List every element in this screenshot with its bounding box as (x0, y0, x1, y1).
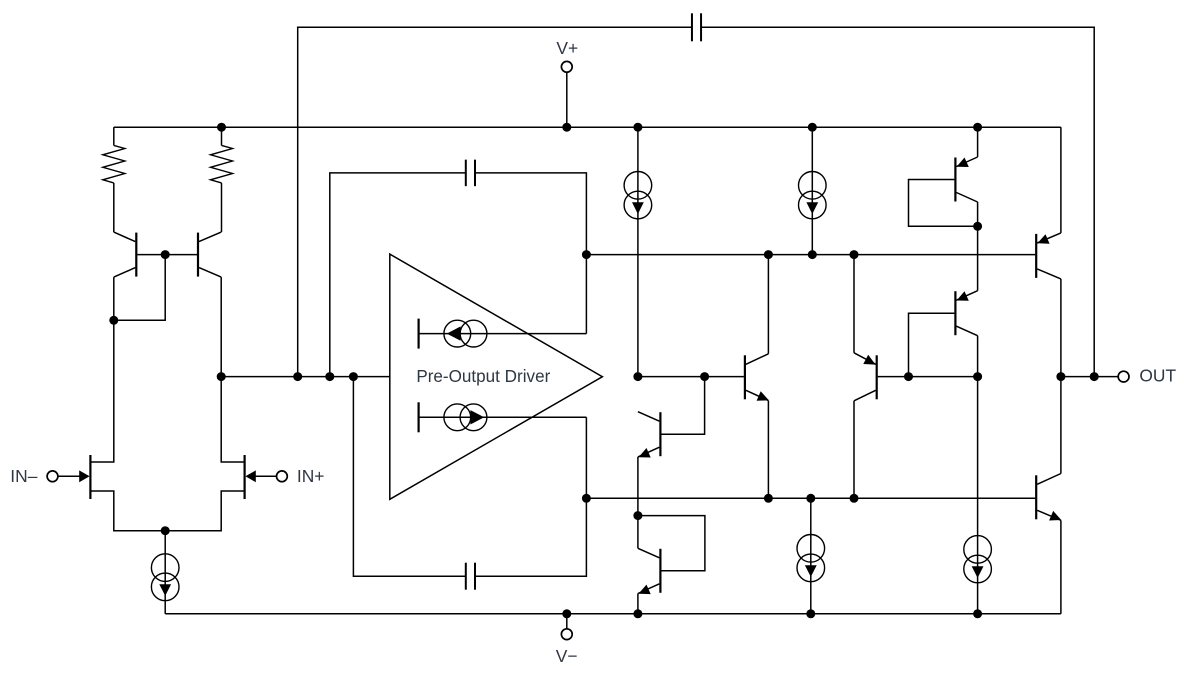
transistor Q4 collector (638, 548, 660, 558)
wire: V- terminal to rail (566, 614, 568, 629)
transistor Q3 emitter (638, 447, 660, 457)
wire: R1 bottom lead to Q1 collector (113, 183, 115, 232)
wire: V- rail (165, 613, 1061, 615)
transistor Q8 base bar (954, 291, 956, 335)
node: tail junction (161, 526, 170, 535)
transistor Q6 collector (854, 390, 876, 401)
node: V+ rail / I1 junction (633, 123, 642, 132)
wire: Q5 emitter to lower bus (767, 401, 769, 499)
current source I1 (624, 172, 652, 200)
terminal V+ pin circle (561, 61, 572, 72)
node: I4 / V- rail junction (973, 609, 982, 618)
wire: upper feedback loop (C2 to IA line) (475, 173, 586, 334)
wire: base node down and left to Q1 emitter line (114, 255, 165, 321)
wire: Q7 collector to Q8 emitter (977, 226, 979, 290)
current source I3 (797, 535, 825, 563)
input JFET J2 channel bar (244, 455, 246, 499)
transistor Q5 emitter (746, 390, 769, 400)
Q9 emitter arrow (points into bar) (1037, 234, 1049, 244)
transistor Q3 base bar (659, 412, 661, 456)
wire: V+ terminal to rail (566, 72, 568, 127)
svg-text:IN+: IN+ (297, 466, 325, 486)
op-amp U1 Pre-Output Driver triangle (390, 254, 603, 499)
wire: Q8 base loop (909, 313, 955, 376)
J1 gate arrow (79, 470, 89, 482)
node: base tie / left branch junction (109, 316, 118, 325)
wire: J1 source (91, 491, 165, 531)
wire: Q3 emitter to Q4 node (637, 457, 639, 516)
transistor Q4 emitter (638, 584, 660, 594)
current source I-tail (151, 554, 179, 582)
current source I2 (799, 172, 827, 200)
Q4 emitter arrow (639, 585, 651, 595)
wire: R2 bottom lead to Q2 collector (221, 183, 223, 232)
wire: Q8 collector node to I4 (977, 377, 979, 614)
wire: left branch vertical (Q1 emitter to J1 drain) (91, 277, 113, 462)
Q7 emitter arrow (points into bar) (957, 158, 969, 168)
Q10 emitter arrow (1049, 511, 1061, 521)
node: lower bus / Q5 emitter junction (764, 494, 773, 503)
svg-text:V+: V+ (556, 38, 578, 58)
wire: Q7 base loop (909, 180, 978, 227)
wire: IN- terminal to J1 gate (58, 475, 80, 477)
wire: IB line to lower cap loop (419, 416, 587, 418)
node: I3 / V- rail junction (806, 609, 815, 618)
capacitor C2 (upper feedback) (465, 160, 467, 187)
transistor Q1 collector (114, 232, 136, 242)
node: node line / top-comp drop junction (293, 372, 302, 381)
Q3 emitter arrow (639, 448, 651, 458)
node: V+ rail / Q7 emitter junction (973, 123, 982, 132)
current source IB terminal bar (418, 402, 420, 432)
wire: V+ rail corner down to Q9 emitter (1060, 127, 1062, 233)
transistor Q1 base bar (135, 233, 137, 277)
wire: Q7 collector down to node (977, 202, 979, 226)
current source IA (arrow left) (444, 320, 471, 347)
node: lower bus / Q6 collector junction (850, 494, 859, 503)
wire: R1 top lead to V+ rail (113, 127, 115, 145)
wire: Q10 emitter to V- rail (1060, 520, 1062, 614)
wire: Q6 emitter to upper bus (853, 255, 855, 353)
transistor Q9 base bar (1035, 234, 1037, 278)
transistor Q2 collector (199, 232, 221, 242)
node: right branch / mid node line junction (217, 372, 226, 381)
transistor Q6 base bar (876, 355, 878, 399)
wire: Q10 collector to OUT node (1060, 377, 1062, 474)
node: upper bus / I2 junction (808, 250, 817, 259)
node: V+ rail / terminal junction (562, 123, 571, 132)
node: Q5 base line / Q3 base junction (700, 372, 709, 381)
svg-text:V−: V− (556, 646, 578, 666)
resistor R2 (211, 145, 233, 183)
wire: I2 vertical (V+ rail to upper bus) (811, 127, 813, 254)
transistor Q6 emitter (854, 353, 876, 365)
wire: Q6 collector to lower bus (853, 401, 855, 499)
J2 gate arrow (245, 470, 255, 482)
transistor Q9 collector (1037, 269, 1061, 279)
current source I4 (964, 536, 992, 564)
node: upper bus / Q6 emitter junction (850, 250, 859, 259)
wire: top compensation net, right segment (C1 to OUT node) (701, 27, 1094, 376)
terminal V- pin circle (561, 629, 572, 640)
wire: J2 source (165, 491, 243, 531)
wire: Q3 base to bias node (661, 377, 704, 435)
wire: OUT node to terminal (1061, 376, 1118, 378)
node: upper loop / mid-upper line junction (582, 250, 591, 259)
transistor Q2 base bar (197, 233, 199, 277)
wire: tail current source vertical (164, 531, 166, 614)
node: Q7 base-collector junction (973, 222, 982, 231)
Q8 emitter arrow (points into bar) (957, 291, 969, 301)
wire: IN+ terminal to J2 gate (256, 475, 277, 477)
wire: top compensation net, left segment (input node to C1) (298, 27, 692, 376)
node: Q4 emitter / V- rail junction (633, 609, 642, 618)
transistor Q10 base bar (1035, 475, 1037, 519)
node: node line / upper-cap-loop junction (325, 372, 334, 381)
wire: upper drive bus (586, 254, 1035, 256)
node: Q1/Q2 base junction (161, 250, 170, 259)
resistor R1 (103, 145, 125, 183)
svg-text:OUT: OUT (1139, 366, 1176, 386)
wire: Q7 emitter from V+ rail (977, 127, 979, 157)
wire: lower drive bus (586, 497, 1035, 499)
svg-text:IN–: IN– (10, 466, 37, 486)
wire: Q9 collector to OUT node (1060, 279, 1062, 377)
node: Q6 base line / Q8 collector junction (973, 372, 982, 381)
node: V- rail / terminal junction (562, 609, 571, 618)
wire: V+ rail (114, 126, 1061, 128)
Q6 emitter arrow (points into bar) (863, 355, 875, 365)
node: OUT node (Q9/Q10 collectors) (1056, 372, 1065, 381)
current source IB (arrow right) (444, 404, 471, 431)
transistor Q5 base bar (744, 355, 746, 399)
transistor Q4 base bar (659, 549, 661, 593)
node: OUT / compensation-cap junction (1090, 372, 1099, 381)
terminal IN- pin circle (47, 471, 58, 482)
current source IA terminal bar (418, 319, 420, 349)
wire: Q8 collector to Q6 base line (977, 336, 979, 377)
wire: upper feedback loop (node line to C2) (330, 173, 466, 377)
capacitor C1 (compensation, top) (691, 13, 693, 41)
transistor Q10 collector (1037, 474, 1061, 485)
terminal IN+ pin circle (277, 471, 288, 482)
node: Q3 emitter / Q4 base-collector junction (633, 511, 642, 520)
transistor Q3 collector (638, 412, 660, 422)
wire: I1 vertical (V+ rail to bias node) (637, 127, 639, 376)
wire: right branch vertical (Q2 emitter to J2 drain) (221, 277, 243, 462)
node: Q6 base line / Q8 base junction (904, 372, 913, 381)
node: lower loop / mid-lower line junction (582, 494, 591, 503)
wire: I3 vertical (lower bus to V- rail) (810, 498, 812, 614)
transistor Q7 base bar (954, 158, 956, 202)
Q5 emitter arrow (757, 391, 769, 401)
transistor Q5 collector (746, 354, 769, 365)
input JFET J1 channel bar (89, 455, 91, 499)
wire: lower feedback loop (C3 to IB line) (475, 417, 586, 576)
wire: Q4 emitter to V- rail (637, 594, 639, 614)
wire: Q4 base loop (638, 516, 705, 571)
transistor Q7 collector (956, 193, 977, 203)
wire: bias node to Q5 base (638, 376, 744, 378)
transistor Q8 collector (956, 326, 977, 336)
wire: input-stage node line to Pre-Output Driver input (221, 376, 390, 378)
wire: lower feedback loop (node line to C3) (353, 377, 465, 577)
node: upper bus / Q5 collector junction (764, 250, 773, 259)
node: lower bus / I3 junction (806, 494, 815, 503)
transistor Q10 emitter (1037, 510, 1061, 520)
svg-text:Pre-Output Driver: Pre-Output Driver (416, 367, 550, 386)
node: bias node (I1 / Q3 chain / Q5 base) (633, 372, 642, 381)
node: node line / lower-cap-loop junction (349, 372, 358, 381)
transistor Q9 emitter (1037, 233, 1061, 243)
terminal OUT pin circle (1118, 371, 1129, 382)
transistor Q8 emitter (956, 291, 977, 301)
transistor Q1 emitter (114, 268, 136, 278)
wire: R2 top lead to V+ rail (221, 127, 223, 145)
wire: IA line to upper cap loop (419, 333, 587, 335)
capacitor C3 (lower feedback) (465, 563, 467, 590)
wire: Q5 collector to upper bus (767, 255, 769, 354)
wire: Q4 collector riser (637, 516, 639, 549)
transistor Q7 emitter (956, 157, 977, 167)
node: V+ rail / R2 junction (217, 123, 226, 132)
wire: Q1-Q2 base interconnect (137, 254, 197, 256)
transistor Q2 emitter (199, 268, 221, 278)
node: V+ rail / I2 junction (808, 123, 817, 132)
wire: Q6 base line to right bias chain (878, 376, 978, 378)
